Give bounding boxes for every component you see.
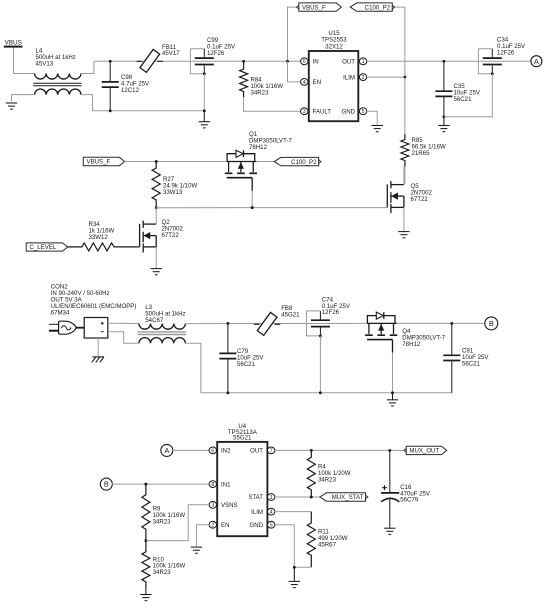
ground: [140, 588, 151, 601]
pin 5 GND: [359, 108, 366, 115]
svg-text:34R23: 34R23: [153, 518, 172, 525]
transistor Q5 2N7002: [387, 181, 404, 213]
wire C99 to ground rail: [203, 74, 205, 111]
svg-text:OUT: OUT: [250, 448, 263, 455]
wire C34 to C35 ground: [444, 74, 492, 117]
wire Q4 gate to rail: [392, 353, 394, 393]
net flag VBUS_F: [296, 3, 341, 11]
pin 5 GND: [268, 521, 275, 528]
junction: [293, 566, 296, 569]
ground: [289, 567, 300, 587]
capacitor C74: [307, 311, 330, 336]
svg-text:GND: GND: [249, 522, 263, 529]
svg-text:OUT: OUT: [342, 59, 355, 66]
svg-text:33W12: 33W12: [89, 234, 109, 241]
junction: [319, 391, 322, 394]
junction: [203, 109, 206, 112]
svg-text:2: 2: [362, 75, 365, 81]
wire ILIM to R11: [275, 511, 311, 513]
junction: [442, 60, 445, 63]
svg-text:IN: IN: [313, 59, 319, 66]
junction: [155, 160, 158, 163]
ferrite bead FB11: [137, 49, 163, 72]
svg-text:IN1: IN1: [221, 481, 231, 488]
wire R84 to FAULT: [244, 97, 301, 111]
ground: [387, 393, 398, 406]
svg-text:34R23: 34R23: [251, 89, 270, 96]
wire to EN: [288, 61, 301, 82]
svg-text:56C21: 56C21: [237, 361, 256, 368]
wire R85 to Q5: [404, 167, 406, 185]
resistor R27: [152, 162, 160, 208]
svg-text:12C12: 12C12: [121, 87, 140, 94]
wire middle net right: [397, 322, 486, 324]
svg-text:MUX_OUT: MUX_OUT: [409, 448, 439, 455]
wire adapter to chassis ground: [97, 338, 99, 357]
svg-text:33W13: 33W13: [163, 189, 183, 196]
svg-text:78H12: 78H12: [249, 144, 268, 151]
junction: [155, 206, 158, 209]
net flag C100_P2: [350, 3, 395, 11]
net flag MUX_OUT: [404, 446, 447, 454]
net flag MUX_STAT: [320, 493, 368, 501]
pin 4 EN: [301, 79, 308, 86]
svg-text:55G21: 55G21: [233, 435, 252, 442]
pin 6 IN: [301, 58, 308, 65]
transistor Q2 2N7002: [140, 221, 157, 253]
resistor R34: [68, 243, 140, 251]
junction: [144, 483, 147, 486]
wire Q2 source to ground: [155, 247, 157, 268]
svg-text:54C67: 54C67: [145, 317, 164, 324]
pin 3 FAULT: [301, 108, 308, 115]
junction: [391, 391, 394, 394]
transistor Q1 DMP3050LVT-7: [225, 150, 257, 191]
junction: [286, 60, 289, 63]
junction: [242, 60, 245, 63]
node B: [100, 478, 112, 490]
ground: [438, 117, 449, 132]
pin 4 ILIM: [268, 508, 275, 515]
svg-text:EN: EN: [313, 79, 321, 86]
svg-text:34R23: 34R23: [153, 569, 172, 576]
svg-text:45G21: 45G21: [281, 312, 300, 319]
wire Q2 drain: [155, 208, 157, 224]
wire ILIM: [367, 76, 405, 78]
ferrite bead FB8: [254, 312, 280, 335]
svg-text:B: B: [104, 480, 109, 489]
pin 2 ILIM: [359, 74, 366, 81]
resistor R84: [240, 61, 248, 97]
junction: [442, 115, 445, 118]
svg-text:8: 8: [211, 482, 214, 488]
capacitor C98: [102, 61, 119, 111]
svg-text:STAT: STAT: [248, 494, 263, 501]
wire GND pin to ground: [367, 111, 377, 125]
wire Q1 to C100_P2: [256, 161, 274, 163]
pin 7 OUT: [268, 447, 275, 454]
svg-text:GND: GND: [341, 108, 355, 115]
power flag VBUS: [4, 39, 23, 73]
resistor R9: [142, 484, 150, 540]
svg-text:12F26: 12F26: [497, 50, 515, 57]
svg-text:1: 1: [362, 59, 365, 65]
svg-text:C_LEVEL: C_LEVEL: [30, 244, 57, 251]
ground: [151, 269, 162, 275]
svg-text:3: 3: [211, 503, 214, 509]
wire GND pin: [275, 525, 294, 568]
wire gate rail: [156, 207, 387, 209]
wire L4 to bottom rail: [81, 95, 93, 111]
capacitor C91: [443, 323, 460, 392]
svg-text:VBUS_F: VBUS_F: [87, 159, 111, 166]
wire adapter minus to L3: [108, 332, 139, 344]
svg-text:6: 6: [303, 59, 306, 65]
junction: [310, 449, 313, 452]
wire Q1 gate to rail: [251, 191, 253, 208]
ac plug: [49, 321, 76, 334]
wire Q5 source to ground: [403, 207, 405, 231]
ic U15 TPS2553: [309, 30, 359, 121]
wire adapter plus to L3: [108, 322, 139, 324]
chassis ground: [92, 357, 104, 363]
svg-text:5: 5: [270, 523, 273, 529]
svg-text:7: 7: [270, 448, 273, 454]
adapter box: [84, 318, 108, 339]
svg-text:EN: EN: [221, 522, 229, 529]
ground: [372, 126, 383, 132]
svg-text:32X12: 32X12: [325, 43, 343, 50]
svg-text:C100_P2: C100_P2: [291, 159, 317, 166]
pin 1 OUT: [359, 58, 366, 65]
svg-text:VSNS: VSNS: [221, 502, 238, 509]
ground: [384, 528, 395, 534]
pin 1 STAT: [268, 494, 275, 501]
svg-text:56C21: 56C21: [454, 96, 473, 103]
pin 6 IN2: [209, 447, 216, 454]
wire bottom rail: [93, 110, 205, 112]
wire middle bottom rail: [201, 392, 452, 394]
wire IN net: [94, 60, 301, 62]
wire VBUS_F net: [125, 161, 227, 163]
capacitor C99: [190, 49, 213, 74]
resistor R11: [307, 512, 315, 568]
capacitor C16: [381, 450, 399, 527]
wire OUT net: [275, 449, 406, 451]
node A: [531, 56, 542, 67]
resistor R4: [307, 450, 315, 497]
svg-text:12F26: 12F26: [322, 309, 340, 316]
node A: [161, 444, 173, 456]
svg-text:A: A: [534, 57, 539, 66]
wire VBUS to L4: [14, 73, 35, 75]
inductor L3: [139, 324, 186, 344]
wire L3 to bottom rail: [184, 343, 201, 393]
svg-text:ILIM: ILIM: [343, 74, 355, 81]
svg-text:2: 2: [211, 523, 214, 529]
svg-text:56C21: 56C21: [462, 361, 481, 368]
svg-text:78H12: 78H12: [402, 341, 421, 348]
svg-text:MUX_STAT: MUX_STAT: [332, 494, 364, 501]
svg-text:A: A: [164, 446, 169, 455]
wire Q5 drain: [403, 167, 405, 185]
wire STAT net: [275, 496, 320, 498]
wire VBUS_F to IN: [288, 7, 297, 61]
wire plug to adapter: [77, 327, 85, 329]
svg-text:45V17: 45V17: [162, 50, 180, 57]
wire A to IN2: [173, 449, 210, 451]
junction: [109, 109, 112, 112]
wire L4 to ground: [12, 95, 35, 102]
wire R11 to GND junction: [294, 566, 311, 568]
transistor Q4 DMP3050LVT-7: [365, 312, 397, 353]
capacitor C79: [219, 323, 236, 392]
capacitor C35: [435, 61, 452, 116]
svg-text:34R23: 34R23: [318, 476, 337, 483]
pin 2 EN: [209, 521, 216, 528]
wire R9 junction to VSNS: [146, 505, 209, 541]
pin 8 IN1: [209, 481, 216, 488]
junction: [109, 60, 112, 63]
node B: [485, 317, 498, 330]
junction: [226, 391, 229, 394]
wire EN to ground: [196, 525, 209, 547]
ground: [6, 103, 17, 109]
svg-text:6: 6: [211, 448, 214, 454]
junction: [226, 322, 229, 325]
svg-text:4: 4: [270, 510, 273, 516]
wire OUT net: [367, 60, 531, 62]
wire ILIM to R85: [404, 77, 406, 134]
wire C_LEVEL to R34: [68, 246, 82, 248]
svg-text:12F26: 12F26: [207, 50, 225, 57]
svg-text:5: 5: [362, 109, 365, 115]
capacitor C34: [478, 49, 501, 74]
junction: [388, 449, 391, 452]
resistor R10: [142, 541, 150, 589]
svg-text:3: 3: [303, 109, 306, 115]
junction: [144, 539, 147, 542]
wire L4 to IN net: [81, 61, 94, 73]
svg-text:VBUS_F: VBUS_F: [302, 4, 326, 11]
wire C74 to bottom rail: [319, 336, 321, 393]
inductor L4: [33, 74, 81, 95]
connector CON2: [51, 284, 137, 317]
ground: [199, 111, 210, 128]
pin 3 VSNS: [209, 501, 216, 508]
wire B to IN1: [112, 483, 209, 485]
svg-text:B: B: [489, 319, 494, 328]
svg-text:1: 1: [270, 495, 273, 501]
svg-text:45V13: 45V13: [36, 60, 54, 67]
svg-text:VBUS: VBUS: [5, 39, 22, 46]
svg-text:56C79: 56C79: [400, 497, 419, 504]
svg-text:C100_P2: C100_P2: [365, 4, 391, 11]
svg-text:ILIM: ILIM: [251, 509, 263, 516]
net flag VBUS_F: [83, 157, 124, 165]
svg-text:IN2: IN2: [221, 448, 231, 455]
svg-text:4: 4: [303, 80, 306, 86]
svg-text:FAULT: FAULT: [313, 108, 332, 115]
svg-text:67T22: 67T22: [411, 196, 429, 203]
wire middle net left: [185, 322, 366, 324]
junction: [403, 76, 406, 79]
net flag C100_P2: [274, 157, 321, 165]
svg-text:67T22: 67T22: [162, 232, 180, 239]
ic U4 TPS2113A: [217, 423, 267, 536]
svg-text:21R65: 21R65: [412, 150, 431, 157]
svg-text:45R67: 45R67: [318, 542, 337, 549]
svg-text:67M34: 67M34: [51, 309, 70, 316]
net flag C_LEVEL: [26, 243, 67, 251]
junction: [450, 322, 453, 325]
ground: [398, 232, 409, 238]
ground: [191, 547, 202, 553]
wire C100_P2 to ILIM: [396, 7, 405, 77]
junction: [251, 206, 254, 209]
junction: [310, 496, 313, 499]
